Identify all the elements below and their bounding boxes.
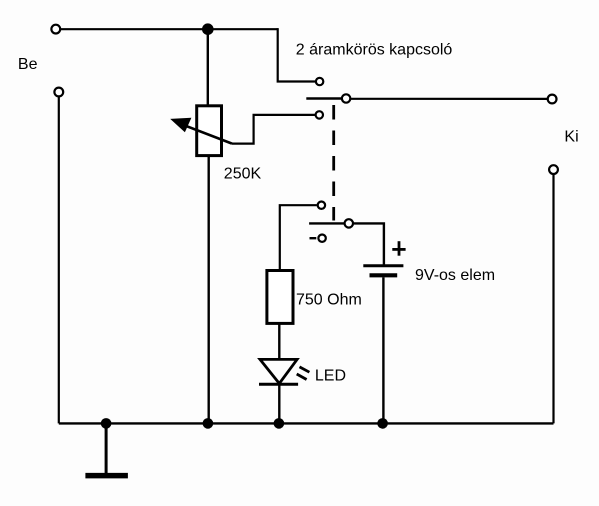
wire potentiometer bottom to bus [207, 156, 209, 424]
label plus [392, 241, 405, 256]
node bus ground [101, 418, 112, 429]
wire corner to switch contact 1 [278, 28, 316, 81]
node bus LED [274, 418, 285, 429]
wire Ki bottom to bus [552, 174, 554, 423]
wire junction to potentiometer [207, 29, 209, 106]
svg-text:9V-os elem: 9V-os elem [415, 267, 495, 284]
wire pole to Ki terminal [351, 98, 548, 100]
wire resistor to LED [278, 324, 280, 360]
switch S1a throw contact 2 [316, 111, 323, 118]
potentiometer R1 body [197, 106, 222, 156]
node bus potentiometer [203, 418, 214, 429]
wire contact to resistor [280, 205, 317, 271]
LED D1 cathode bar [259, 383, 298, 386]
svg-text:Ki: Ki [564, 129, 578, 146]
LED D1 anode triangle [260, 359, 297, 383]
svg-text:250K: 250K [224, 166, 262, 183]
node top junction [202, 23, 214, 35]
wire Be bottom to ground bus [58, 97, 60, 424]
wire battery negative to bus [382, 277, 384, 423]
terminal Be top [51, 25, 60, 34]
label minus [310, 237, 317, 239]
switch S1b throw contact [318, 202, 325, 209]
wire top horizontal [61, 28, 278, 30]
node bus battery [377, 418, 388, 429]
svg-text:LED: LED [315, 368, 346, 385]
LED light rays [297, 367, 310, 380]
ground bar [85, 473, 128, 479]
svg-text:Be: Be [18, 56, 38, 73]
wire LED to bus [278, 384, 280, 423]
potentiometer R1 wiper arrow [170, 118, 232, 144]
switch mechanical link dashed [332, 105, 335, 221]
switch S1a pole contact [342, 94, 350, 102]
switch S1b unused contact [318, 235, 325, 242]
wire pole to battery positive [353, 223, 384, 266]
resistor R2 body [267, 271, 293, 324]
wire ground bus [59, 422, 554, 424]
battery B1 negative plate [370, 273, 398, 277]
ground stem [105, 423, 108, 473]
terminal Be bottom [54, 88, 63, 97]
switch S1b arm [309, 222, 344, 224]
wire wiper to switch contact 2 [232, 115, 315, 144]
switch S1a arm [306, 97, 341, 99]
svg-text:2 áramkörös kapcsoló: 2 áramkörös kapcsoló [296, 42, 453, 59]
switch S1b pole contact [345, 219, 353, 227]
switch S1a throw contact 1 [316, 78, 323, 85]
terminal Ki top [548, 95, 557, 104]
svg-text:750 Ohm: 750 Ohm [296, 292, 362, 309]
battery B1 positive plate [363, 264, 403, 267]
terminal Ki bottom [549, 165, 558, 174]
